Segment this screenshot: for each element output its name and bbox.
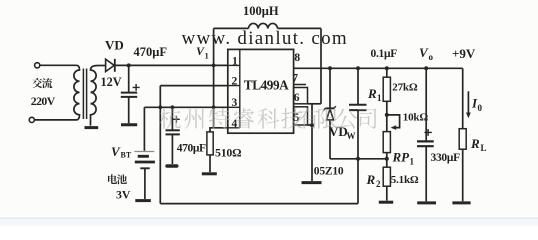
- svg-text:R: R: [367, 86, 377, 101]
- svg-text:VD: VD: [105, 38, 124, 53]
- svg-text:R: R: [470, 136, 480, 151]
- svg-text:2: 2: [232, 76, 238, 88]
- svg-text:12V: 12V: [101, 75, 122, 89]
- bottom page band: [0, 219, 538, 227]
- capacitor C1 470uF: [128, 65, 130, 92]
- wire V1 vertical: [213, 28, 215, 127]
- svg-text:R: R: [366, 172, 376, 187]
- svg-text:BT: BT: [121, 151, 132, 160]
- svg-text:27kΩ: 27kΩ: [392, 81, 418, 93]
- label 交流: [32, 78, 42, 88]
- svg-text:+9V: +9V: [452, 46, 476, 61]
- ground transformer secondary: [85, 126, 99, 129]
- capacitor 330uF: [425, 68, 427, 141]
- svg-text:RP: RP: [392, 150, 411, 165]
- svg-text:1: 1: [410, 157, 415, 167]
- svg-text:1: 1: [377, 93, 382, 103]
- svg-text:2: 2: [376, 179, 381, 189]
- wire input top: [40, 64, 77, 66]
- AC input terminal bottom: [29, 117, 34, 122]
- wire riser pin2 to bottom rail: [159, 86, 161, 204]
- pin 7 cell bottom line: [294, 84, 306, 86]
- node junction at C1: [127, 63, 131, 67]
- svg-text:3V: 3V: [116, 188, 131, 202]
- transformer T1: [74, 65, 80, 120]
- svg-text:V: V: [419, 45, 429, 60]
- svg-text:470μF: 470μF: [177, 143, 206, 155]
- svg-text:TL499A: TL499A: [244, 78, 289, 93]
- svg-text:100μH: 100μH: [243, 4, 279, 18]
- pin column left: [239, 49, 241, 127]
- svg-text:5.1kΩ: 5.1kΩ: [391, 174, 419, 186]
- svg-text:L: L: [481, 143, 487, 153]
- ground pins5-6: [302, 181, 322, 184]
- svg-text:www. dianlut. com: www. dianlut. com: [182, 28, 349, 49]
- svg-text:0.1μF: 0.1μF: [371, 48, 398, 60]
- wire pin1 rail (V1): [115, 64, 228, 66]
- ground RL: [452, 201, 470, 204]
- wire pin6 riser to rail/inductor: [320, 28, 322, 103]
- resistor R1 27k: [386, 68, 388, 77]
- svg-text:470μF: 470μF: [134, 45, 168, 59]
- svg-text:1: 1: [232, 55, 238, 67]
- capacitor C2 470uF: [171, 107, 173, 130]
- potentiometer RP1 wiper: [387, 115, 400, 128]
- op-amp U1 TL499A body: [228, 49, 294, 133]
- diode VD: [98, 65, 106, 67]
- wire pin 5: [308, 124, 313, 126]
- wire pin2: [160, 85, 228, 87]
- svg-text:1: 1: [205, 51, 209, 61]
- label 电池: [108, 174, 117, 184]
- inductor L1 100uH: [214, 27, 249, 29]
- wire pin3: [144, 106, 227, 108]
- svg-text:220V: 220V: [31, 94, 56, 108]
- svg-text:0: 0: [478, 103, 483, 113]
- resistor R2 5.1k: [386, 159, 388, 167]
- ground R510: [202, 172, 217, 175]
- zener VDW: [329, 68, 331, 107]
- wire output rail: [294, 67, 463, 69]
- node dots on rail: [328, 66, 332, 70]
- ground C1: [121, 123, 137, 126]
- svg-text:7: 7: [292, 73, 298, 85]
- pin cells right: 6 and 5 protruding boxes: [294, 88, 308, 104]
- svg-text:3: 3: [232, 97, 238, 109]
- svg-text:330μF: 330μF: [431, 152, 461, 164]
- svg-text:05Z10: 05Z10: [314, 166, 344, 178]
- potentiometer RP1 body: [383, 132, 390, 153]
- svg-text:10kΩ: 10kΩ: [403, 111, 429, 123]
- load RL: [462, 68, 464, 128]
- ground R2: [379, 201, 393, 204]
- svg-text:W: W: [347, 131, 356, 141]
- svg-text:V: V: [111, 144, 121, 159]
- wire pin 6: [308, 103, 322, 105]
- wire input bottom: [34, 119, 76, 121]
- svg-text:510Ω: 510Ω: [215, 146, 241, 160]
- wire node B: [330, 158, 387, 160]
- wire bottom rail: [160, 203, 358, 205]
- battery VBT: [143, 107, 145, 151]
- svg-text:6: 6: [294, 92, 300, 104]
- watermark gray text 杭州特睿科技有限公司: [160, 108, 377, 129]
- wire pin5/6 down: [311, 104, 313, 181]
- ground 330uF: [417, 201, 436, 204]
- svg-text:o: o: [429, 52, 434, 62]
- resistor R 510: [210, 121, 229, 132]
- svg-text:4: 4: [232, 118, 238, 130]
- capacitor 0.1uF: [357, 68, 359, 104]
- AC input terminal top: [35, 63, 40, 68]
- current Io arrow: [467, 91, 469, 114]
- svg-text:8: 8: [294, 52, 300, 64]
